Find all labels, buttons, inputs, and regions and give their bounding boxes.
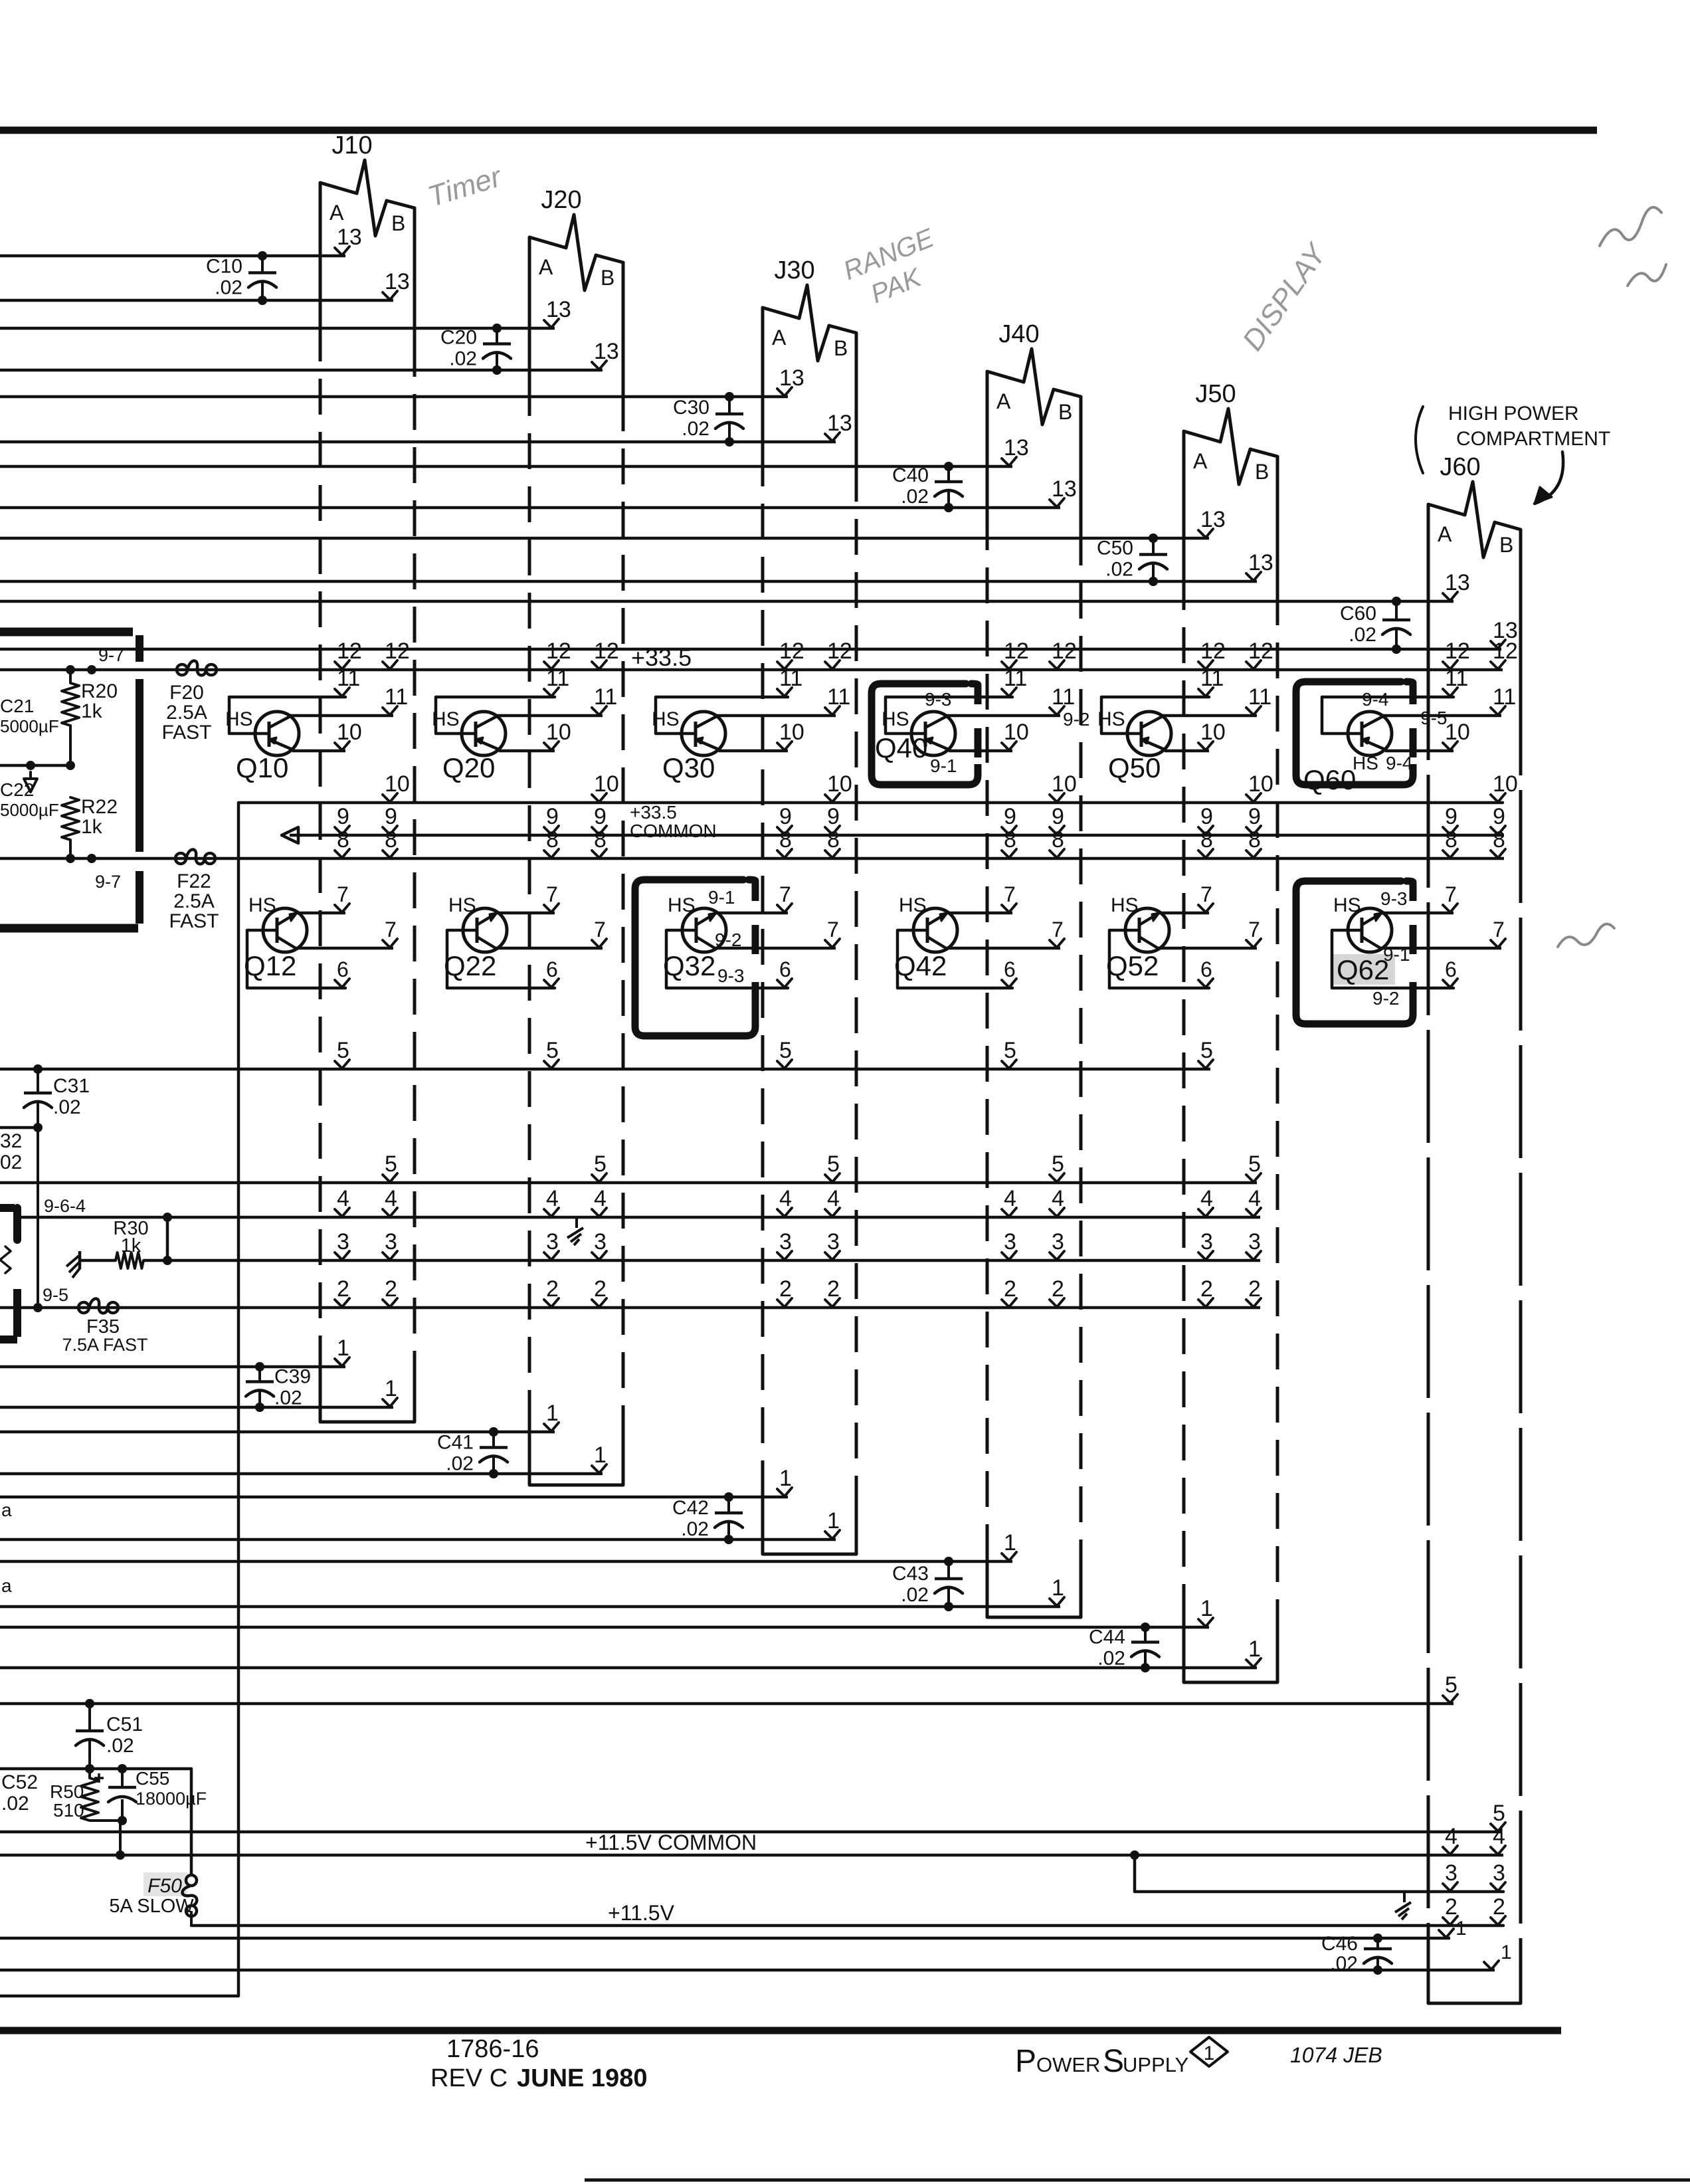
svg-text:A: A — [996, 389, 1011, 413]
svg-text:11: 11 — [546, 666, 569, 691]
svg-text:12: 12 — [1493, 639, 1518, 664]
svg-text:9-5: 9-5 — [1420, 708, 1447, 728]
svg-text:6: 6 — [1004, 957, 1016, 981]
svg-text:32: 32 — [0, 1130, 22, 1152]
svg-text:12: 12 — [779, 639, 804, 664]
svg-text:10: 10 — [385, 771, 410, 797]
svg-text:1074 JEB: 1074 JEB — [1290, 2043, 1382, 2067]
bottom border line — [0, 2027, 1561, 2035]
svg-text:10: 10 — [1445, 720, 1470, 745]
svg-text:2: 2 — [779, 1276, 792, 1302]
svg-text:HS: HS — [1111, 894, 1139, 916]
svg-text:R22: R22 — [81, 796, 118, 818]
svg-text:5: 5 — [1248, 1151, 1261, 1177]
capacitor C41 — [437, 1427, 508, 1478]
svg-text:2: 2 — [1493, 1894, 1505, 1920]
wire J40 pin A1 — [0, 1530, 1016, 1566]
wire C51 bottom / F50 feed — [0, 1764, 191, 1875]
resistor R20 — [62, 670, 118, 726]
top border line — [0, 127, 1597, 134]
heat-sink box around Q32 — [635, 880, 755, 1036]
svg-text:C10: C10 — [206, 256, 242, 278]
svg-text:1: 1 — [779, 1466, 792, 1491]
svg-text:2: 2 — [337, 1276, 349, 1302]
svg-text:C39: C39 — [274, 1366, 311, 1388]
svg-text:1: 1 — [385, 1376, 397, 1401]
resistor R22 — [62, 796, 118, 858]
svg-text:6: 6 — [779, 957, 791, 981]
svg-text:5: 5 — [1052, 1151, 1064, 1177]
svg-text:2: 2 — [1248, 1276, 1261, 1302]
svg-text:C30: C30 — [673, 397, 709, 419]
pencil scribble top right — [1600, 207, 1661, 246]
svg-text:5: 5 — [1200, 1038, 1213, 1063]
svg-text:C60: C60 — [1340, 603, 1376, 625]
svg-text:A: A — [1438, 522, 1452, 546]
svg-text:9: 9 — [1052, 804, 1064, 829]
svg-text:9: 9 — [1493, 804, 1505, 829]
wire C32 riser — [37, 1128, 39, 1308]
svg-text:8: 8 — [1200, 827, 1213, 852]
svg-text:7: 7 — [546, 882, 558, 906]
svg-text:Q60: Q60 — [1303, 764, 1356, 795]
transistor Q52 — [1106, 882, 1261, 988]
svg-text:.02: .02 — [901, 486, 929, 508]
svg-text:6: 6 — [546, 957, 558, 981]
capacitor C31 — [24, 1064, 90, 1132]
svg-text:4: 4 — [779, 1186, 792, 1211]
svg-text:Q12: Q12 — [244, 950, 296, 981]
svg-text:9-4: 9-4 — [1386, 753, 1412, 773]
svg-text:J10: J10 — [331, 132, 372, 159]
svg-text:.02: .02 — [682, 418, 709, 440]
svg-text:13: 13 — [385, 269, 410, 294]
capacitor C30 — [673, 392, 743, 447]
svg-text:9: 9 — [779, 804, 792, 829]
svg-text:5: 5 — [337, 1038, 349, 1063]
wire J20 pin A13 — [0, 297, 571, 333]
svg-text:7: 7 — [827, 918, 839, 942]
capacitor C55 — [94, 1764, 207, 1825]
svg-text:8: 8 — [1493, 827, 1505, 852]
svg-text:11: 11 — [1200, 666, 1224, 691]
svg-text:13: 13 — [594, 339, 619, 364]
svg-text:+33.5: +33.5 — [630, 802, 677, 823]
svg-text:B: B — [1058, 400, 1072, 424]
svg-text:4: 4 — [1200, 1186, 1213, 1211]
transistor Q20 — [432, 666, 617, 783]
wire pin-5 bus lower — [0, 1151, 1261, 1183]
wire J50 pin A13 — [0, 507, 1226, 543]
svg-text:13: 13 — [1200, 507, 1226, 532]
transistor Q62 — [1332, 882, 1505, 988]
svg-text:12: 12 — [1200, 639, 1226, 664]
svg-text:9-7: 9-7 — [95, 872, 121, 892]
wire +33.5 COMMON bus (pin 10) — [0, 771, 1518, 1996]
wire J60 pin A5 — [0, 1672, 1457, 1708]
brace before HIGH POWER — [1416, 407, 1423, 473]
svg-text:C42: C42 — [672, 1497, 709, 1519]
svg-text:+11.5V COMMON: +11.5V COMMON — [585, 1831, 757, 1854]
svg-text:9-2: 9-2 — [1063, 709, 1089, 730]
svg-text:.02: .02 — [681, 1518, 709, 1540]
svg-text:J40: J40 — [998, 320, 1039, 348]
wire pin-3 bus — [143, 1217, 1261, 1265]
svg-text:HIGH POWER: HIGH POWER — [1448, 403, 1579, 425]
svg-text:5: 5 — [385, 1151, 397, 1177]
svg-text:1k: 1k — [121, 1235, 141, 1256]
svg-text:8: 8 — [337, 827, 349, 852]
wire pin-5 bus upper — [0, 1038, 1213, 1074]
svg-text:4: 4 — [1445, 1824, 1457, 1849]
svg-text:A: A — [1193, 449, 1208, 473]
svg-text:.02: .02 — [449, 348, 477, 370]
wire J50 pin A1 — [0, 1596, 1213, 1632]
svg-text:1: 1 — [827, 1508, 840, 1534]
svg-text:.02: .02 — [1105, 559, 1133, 581]
svg-text:02: 02 — [0, 1151, 22, 1173]
svg-text:FAST: FAST — [161, 722, 211, 744]
svg-text:7: 7 — [1200, 882, 1212, 906]
svg-text:9-6-4: 9-6-4 — [44, 1196, 86, 1216]
svg-text:12: 12 — [1004, 639, 1029, 664]
svg-text:HS: HS — [432, 708, 460, 730]
svg-text:R50: R50 — [50, 1781, 84, 1802]
svg-text:11: 11 — [779, 666, 802, 691]
pencil note TIMER — [424, 160, 507, 213]
svg-text:13: 13 — [827, 411, 852, 436]
fuse F50 — [109, 1872, 197, 1926]
svg-text:6: 6 — [337, 957, 349, 981]
svg-text:10: 10 — [1004, 720, 1029, 745]
wire J60 pin B5 — [0, 1801, 1505, 1832]
transistor Q42 — [894, 882, 1064, 988]
svg-text:13: 13 — [779, 365, 804, 391]
svg-text:3: 3 — [385, 1229, 397, 1254]
capacitor C10 — [206, 251, 276, 305]
svg-text:3: 3 — [594, 1229, 607, 1254]
resistor R50 — [50, 1769, 120, 1821]
wire J30 pin B1 — [0, 1508, 840, 1544]
wire J10 pin B13 — [0, 269, 410, 305]
svg-text:10: 10 — [1052, 771, 1077, 797]
svg-text:18000µF: 18000µF — [136, 1789, 207, 1809]
svg-text:OWER: OWER — [1036, 2053, 1100, 2076]
svg-text:Q10: Q10 — [236, 752, 288, 783]
svg-text:5: 5 — [1004, 1038, 1016, 1063]
capacitor C60 — [1340, 597, 1410, 654]
svg-text:13: 13 — [1052, 476, 1077, 502]
svg-text:6: 6 — [1200, 957, 1212, 981]
wire pin-9 bus — [282, 804, 1505, 843]
svg-text:C21: C21 — [0, 696, 34, 716]
pencil scribble right middle — [1558, 924, 1614, 947]
svg-text:3: 3 — [1052, 1229, 1064, 1254]
svg-text:8: 8 — [385, 827, 397, 852]
svg-text:9: 9 — [1248, 804, 1261, 829]
svg-text:9: 9 — [1445, 804, 1457, 829]
svg-text:3: 3 — [779, 1229, 792, 1254]
svg-text:2: 2 — [1445, 1894, 1457, 1920]
transistor Q40 — [875, 666, 1075, 763]
svg-text:HS: HS — [882, 708, 909, 730]
svg-text:9: 9 — [594, 804, 607, 829]
connector J10 — [320, 132, 415, 1422]
svg-text:2: 2 — [1004, 1276, 1016, 1302]
svg-text:S: S — [1103, 2044, 1124, 2079]
svg-text:a: a — [1, 1500, 12, 1520]
heat-sink box around Q40 — [872, 684, 978, 785]
capacitor C46 — [1321, 1933, 1392, 1975]
transistor Q32 — [663, 882, 840, 988]
wire pin-4 bus (9-6-4) — [19, 1186, 1261, 1222]
svg-text:.02: .02 — [215, 277, 242, 299]
svg-text:9-3: 9-3 — [925, 689, 951, 710]
svg-text:HS: HS — [1333, 894, 1361, 916]
svg-text:2: 2 — [1052, 1276, 1064, 1302]
ground at R30 — [78, 1251, 82, 1269]
svg-text:Q22: Q22 — [444, 950, 496, 981]
svg-text:.02: .02 — [106, 1735, 134, 1757]
svg-text:J20: J20 — [541, 186, 581, 214]
svg-text:C44: C44 — [1089, 1627, 1125, 1648]
wire J60 pin A13 — [0, 570, 1470, 606]
pencil note RANGE PAK — [839, 223, 951, 316]
svg-text:12: 12 — [546, 639, 571, 664]
svg-text:HS: HS — [1097, 708, 1125, 730]
svg-text:4: 4 — [594, 1186, 607, 1211]
connector J40 — [987, 320, 1081, 1617]
svg-text:Q42: Q42 — [894, 950, 947, 981]
wire pin-2 bus (9-5) — [0, 1276, 1261, 1313]
bottom page edge line — [585, 2179, 1690, 2182]
power supply block 1 outline — [0, 632, 140, 928]
svg-text:HS: HS — [448, 894, 476, 916]
svg-text:1: 1 — [337, 1336, 349, 1361]
svg-text:6: 6 — [1445, 957, 1457, 981]
wire J60 pin B1 — [0, 1941, 1512, 1970]
connector J50 — [1184, 380, 1277, 1682]
svg-text:C41: C41 — [437, 1432, 474, 1454]
svg-text:4: 4 — [385, 1186, 397, 1211]
svg-text:3: 3 — [337, 1229, 349, 1254]
svg-text:.02: .02 — [901, 1584, 929, 1606]
svg-text:12: 12 — [337, 639, 362, 664]
svg-text:10: 10 — [779, 720, 804, 745]
svg-text:HS: HS — [668, 894, 696, 916]
capacitor C39 — [246, 1362, 311, 1412]
capacitor C43 — [892, 1557, 963, 1611]
svg-text:C55: C55 — [136, 1768, 169, 1789]
svg-text:10: 10 — [827, 771, 852, 797]
ground at pin-3 wire — [1403, 1892, 1406, 1902]
svg-text:8: 8 — [1052, 827, 1064, 852]
svg-text:12: 12 — [385, 639, 410, 664]
svg-text:Q62: Q62 — [1337, 954, 1389, 985]
svg-text:3: 3 — [1004, 1229, 1016, 1254]
svg-text:1: 1 — [594, 1442, 607, 1468]
common arrow below node — [24, 772, 37, 792]
svg-text:COMPARTMENT: COMPARTMENT — [1456, 428, 1610, 450]
svg-text:9: 9 — [827, 804, 840, 829]
svg-text:11: 11 — [827, 684, 850, 710]
svg-text:COMMON: COMMON — [630, 821, 717, 841]
connector J60 — [1428, 453, 1521, 2003]
svg-text:3: 3 — [827, 1229, 840, 1254]
svg-text:REV C: REV C — [430, 2064, 508, 2092]
svg-text:Q20: Q20 — [442, 752, 495, 783]
svg-text:.02: .02 — [1, 1793, 29, 1815]
svg-text:13: 13 — [546, 297, 571, 322]
svg-text:3: 3 — [1200, 1229, 1213, 1254]
svg-text:Q30: Q30 — [662, 752, 715, 783]
wire J50 pin B1 — [0, 1637, 1261, 1672]
svg-text:1: 1 — [1501, 1941, 1512, 1963]
svg-text:C40: C40 — [892, 464, 929, 486]
transistor Q12 — [244, 882, 397, 988]
svg-text:2: 2 — [827, 1276, 840, 1302]
svg-text:F20: F20 — [169, 682, 204, 704]
svg-text:2: 2 — [1200, 1276, 1213, 1302]
svg-text:A: A — [329, 201, 344, 225]
svg-text:HS: HS — [248, 894, 276, 916]
svg-text:R20: R20 — [81, 680, 118, 702]
svg-text:9-3: 9-3 — [717, 965, 744, 986]
svg-text:F22: F22 — [177, 870, 211, 892]
transistor Q22 — [444, 882, 607, 988]
svg-text:C31: C31 — [53, 1075, 90, 1097]
svg-text:.02: .02 — [53, 1096, 81, 1118]
wire J40 pin B13 — [0, 476, 1077, 512]
ground symbol below pin-4 bus — [575, 1217, 578, 1228]
svg-text:5000µF: 5000µF — [0, 800, 59, 820]
svg-text:.02: .02 — [446, 1453, 474, 1475]
svg-text:C50: C50 — [1097, 538, 1133, 559]
wire J10 pin A1 — [0, 1336, 349, 1371]
svg-text:a: a — [1, 1575, 12, 1596]
svg-text:3: 3 — [1445, 1860, 1457, 1886]
svg-text:+11.5V: +11.5V — [608, 1901, 675, 1925]
svg-text:11: 11 — [385, 684, 408, 710]
connector J20 — [529, 186, 623, 1485]
capacitor C40 — [892, 462, 963, 512]
wire J30 pin B13 — [0, 411, 852, 447]
svg-text:9: 9 — [1004, 804, 1016, 829]
svg-text:7.5A FAST: 7.5A FAST — [62, 1335, 147, 1355]
svg-text:HS: HS — [1353, 753, 1378, 773]
svg-text:HS: HS — [652, 708, 680, 730]
arrow to J60 — [1535, 452, 1563, 504]
svg-text:B: B — [1499, 533, 1513, 557]
svg-text:9-4: 9-4 — [1362, 689, 1388, 710]
svg-text:5: 5 — [827, 1151, 840, 1177]
grey box behind Q62 label — [1331, 954, 1395, 985]
svg-text:11: 11 — [1052, 684, 1075, 710]
svg-text:5: 5 — [1493, 1801, 1505, 1826]
transistor Q10 — [225, 666, 408, 783]
svg-text:4: 4 — [337, 1186, 349, 1211]
wire pin-3 branch — [1135, 1855, 1505, 1892]
transistor Q30 — [652, 666, 850, 783]
svg-text:9-5: 9-5 — [43, 1285, 68, 1305]
svg-text:3: 3 — [1248, 1229, 1261, 1254]
svg-text:10: 10 — [1200, 720, 1226, 745]
wire J20 pin B13 — [0, 339, 619, 375]
svg-text:10: 10 — [337, 720, 362, 745]
svg-text:J50: J50 — [1195, 380, 1236, 408]
svg-text:10: 10 — [594, 771, 619, 797]
wire J40 pin A13 — [0, 435, 1029, 471]
svg-text:UPPLY: UPPLY — [1123, 2053, 1188, 2076]
svg-text:J30: J30 — [774, 256, 814, 284]
svg-text:13: 13 — [337, 225, 362, 250]
svg-text:8: 8 — [1004, 827, 1016, 852]
svg-text:11: 11 — [1004, 666, 1027, 691]
transistor Q60 — [1303, 666, 1516, 795]
svg-text:5: 5 — [779, 1038, 792, 1063]
svg-text:11: 11 — [1493, 684, 1516, 710]
svg-text:1: 1 — [1052, 1575, 1064, 1601]
svg-text:13: 13 — [1248, 550, 1273, 575]
svg-text:B: B — [601, 266, 614, 290]
svg-text:9-3: 9-3 — [1380, 888, 1407, 909]
wire pin-8 bus — [0, 827, 1505, 864]
svg-text:Q50: Q50 — [1108, 752, 1161, 783]
svg-text:9: 9 — [546, 804, 559, 829]
svg-text:9-7: 9-7 — [98, 645, 124, 665]
heat-sink box around Q60 — [1296, 682, 1413, 785]
svg-text:B: B — [1255, 460, 1269, 484]
svg-text:510: 510 — [53, 1800, 84, 1821]
svg-text:5: 5 — [594, 1151, 607, 1177]
svg-text:9: 9 — [385, 804, 397, 829]
svg-text:8: 8 — [827, 827, 840, 852]
svg-text:C22: C22 — [0, 779, 34, 800]
svg-text:1786-16: 1786-16 — [446, 2035, 539, 2063]
svg-text:1: 1 — [1204, 2042, 1215, 2064]
svg-text:7: 7 — [1493, 918, 1505, 942]
svg-text:3: 3 — [1493, 1860, 1505, 1886]
wire J10 pin A13 — [0, 225, 362, 260]
wire +33.5 bus (pin 12) — [0, 639, 1518, 675]
svg-text:7: 7 — [1052, 918, 1064, 942]
wire J30 pin A1 — [0, 1466, 792, 1502]
svg-text:3: 3 — [546, 1229, 559, 1254]
svg-text:1k: 1k — [81, 816, 103, 838]
resistor R30 — [80, 1218, 149, 1268]
svg-text:4: 4 — [1493, 1824, 1505, 1849]
wire J50 pin B13 — [0, 550, 1273, 586]
svg-text:5A SLOW: 5A SLOW — [109, 1896, 194, 1917]
svg-text:C51: C51 — [106, 1714, 143, 1736]
svg-text:11: 11 — [337, 666, 360, 691]
svg-text:B: B — [834, 336, 848, 360]
capacitor C44 — [1089, 1623, 1159, 1672]
svg-text:1: 1 — [546, 1401, 559, 1426]
svg-text:2: 2 — [546, 1276, 559, 1302]
svg-text:.02: .02 — [1349, 624, 1376, 646]
svg-text:13: 13 — [1004, 435, 1029, 460]
wire J20 pin B1 — [0, 1442, 607, 1478]
wire J10 pin B1 — [0, 1376, 397, 1412]
svg-text:FAST: FAST — [169, 910, 219, 932]
svg-text:Q52: Q52 — [1106, 950, 1159, 981]
svg-text:12: 12 — [827, 639, 852, 664]
connector J30 — [763, 256, 856, 1554]
capacitor C20 — [440, 324, 511, 375]
svg-text:9-2: 9-2 — [1372, 988, 1399, 1009]
svg-text:5000µF: 5000µF — [0, 716, 59, 736]
